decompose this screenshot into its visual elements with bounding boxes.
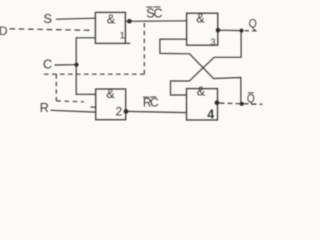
- svg-text:C: C: [150, 95, 159, 109]
- svg-text:1: 1: [120, 30, 125, 41]
- svg-text:Q: Q: [249, 16, 257, 30]
- svg-text:4: 4: [207, 108, 214, 122]
- svg-text:Q: Q: [247, 93, 255, 105]
- svg-text:D: D: [0, 24, 8, 38]
- svg-text:2: 2: [116, 104, 123, 118]
- svg-text:&: &: [196, 12, 205, 26]
- svg-text:C: C: [43, 57, 52, 72]
- svg-text:3: 3: [210, 37, 215, 48]
- svg-text:&: &: [197, 85, 206, 99]
- svg-text:&: &: [106, 87, 115, 101]
- svg-text:C: C: [154, 7, 163, 21]
- svg-text:R: R: [40, 101, 49, 115]
- svg-text:S: S: [43, 11, 52, 26]
- svg-text:&: &: [107, 13, 116, 27]
